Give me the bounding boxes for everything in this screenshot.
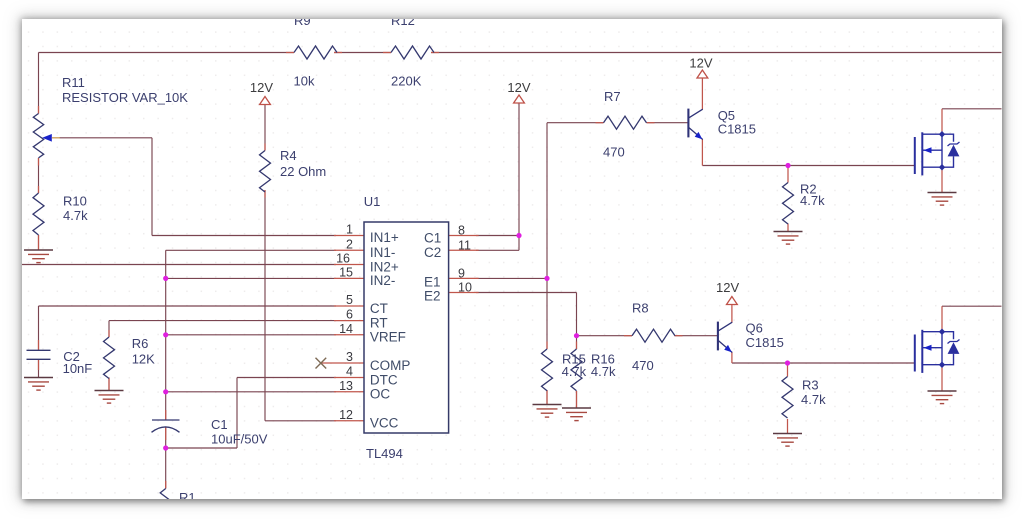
POWER 12V ARROWS (hollow red) xyxy=(260,70,738,305)
RED PIN STUBS xyxy=(39,53,943,489)
pin 8 stub xyxy=(449,235,479,237)
wire DTC horizontal bottom xyxy=(166,447,237,449)
junction E1 / R15 xyxy=(544,276,549,281)
resistor R8 zigzag 470 xyxy=(632,329,675,342)
svg-text:R3: R3 xyxy=(802,378,819,393)
svg-text:R12: R12 xyxy=(391,19,415,28)
wire R10 bottom to ground xyxy=(38,235,40,250)
svg-text:R11: R11 xyxy=(62,75,85,90)
svg-text:IN1-: IN1- xyxy=(370,245,396,260)
wire top feedback segment A xyxy=(39,52,295,54)
svg-text:R10: R10 xyxy=(63,194,87,209)
svg-text:2: 2 xyxy=(346,237,353,251)
svg-text:IN1+: IN1+ xyxy=(370,230,399,245)
pin 3 stub xyxy=(321,362,364,364)
junction Q6 emitter / R3 xyxy=(785,360,790,365)
lower MOSFET body arrow xyxy=(924,345,932,351)
resistor R7 zigzag 470 xyxy=(604,116,647,129)
svg-text:4: 4 xyxy=(346,365,353,379)
wire feedback vertical lower (below C1) xyxy=(165,428,167,449)
svg-text:R8: R8 xyxy=(632,301,649,316)
wire Q6 emitter run to gate xyxy=(732,362,915,364)
wire upper MOSFET drain horizontal xyxy=(942,108,1002,110)
R2 top stub xyxy=(787,166,789,183)
R15 pin stubs xyxy=(546,342,548,350)
ground R15 xyxy=(533,405,562,418)
R6 pin stubs xyxy=(108,330,110,337)
svg-text:12K: 12K xyxy=(132,352,155,367)
svg-text:4.7k: 4.7k xyxy=(800,193,825,208)
svg-text:15: 15 xyxy=(339,265,353,279)
pin 5 stub xyxy=(334,305,364,307)
C2 bottom pin stub xyxy=(38,360,40,371)
svg-text:16: 16 xyxy=(336,252,350,266)
resistor R4 zigzag 22 Ohm xyxy=(260,151,271,192)
wire top feedback segment B (between R9 and R12) xyxy=(334,52,391,54)
pin 16 stub xyxy=(334,264,364,266)
svg-text:RESISTOR VAR_10K: RESISTOR VAR_10K xyxy=(62,90,188,105)
potentiometer R11 wiper pin (tan segment) xyxy=(52,137,60,139)
wire R11 bottom to R10 top xyxy=(38,158,40,193)
svg-text:C1: C1 xyxy=(424,230,441,245)
wire to pin 1 IN1+ xyxy=(152,235,336,237)
svg-text:VREF: VREF xyxy=(370,330,406,345)
wire DTC vertical xyxy=(236,378,238,449)
pin 6 stub xyxy=(334,320,364,322)
junction E2 / R16 xyxy=(574,333,579,338)
pin 9 stub xyxy=(449,277,479,279)
svg-text:IN2-: IN2- xyxy=(370,273,396,288)
pin 1 stub xyxy=(334,235,364,237)
power 12V arrow mid (C1/C2 rail) xyxy=(514,95,525,103)
wire R1 top xyxy=(165,448,167,489)
ground C2 xyxy=(24,378,53,391)
wire R8 right to Q6 base xyxy=(675,335,718,337)
pin 4 stub xyxy=(334,377,364,379)
lower MOSFET zener diode triangle xyxy=(948,342,960,354)
ground R10 xyxy=(24,250,53,263)
wire top feedback segment C xyxy=(431,52,1002,54)
svg-text:3: 3 xyxy=(346,350,353,364)
svg-text:RT: RT xyxy=(370,315,388,330)
pin 12 stub xyxy=(334,420,364,422)
wire feedback vertical upper xyxy=(165,250,167,419)
R16 pin stubs xyxy=(576,342,578,350)
JUNCTION DOTS (magenta) xyxy=(163,163,791,451)
junction VREF xyxy=(163,332,168,337)
wire R7 right to Q5 base xyxy=(647,122,689,124)
C1 bottom pin stub xyxy=(165,428,167,441)
pin 14 stub xyxy=(334,334,364,336)
wire to pin 13 OC xyxy=(166,391,336,393)
wire pin 11 C2 to corner xyxy=(476,249,519,251)
wire wiper vertical xyxy=(151,138,153,236)
svg-text:R7: R7 xyxy=(604,89,621,104)
svg-text:R9: R9 xyxy=(294,19,311,28)
svg-text:11: 11 xyxy=(458,239,471,253)
resistor R16 zigzag 4.7k xyxy=(571,349,582,391)
wire C2 corner up to junction xyxy=(518,236,520,251)
ground R3 xyxy=(773,434,802,447)
R12 pin stubs xyxy=(383,52,391,54)
wire to pin 2 IN1- xyxy=(166,249,336,251)
svg-text:E1: E1 xyxy=(424,274,441,289)
R3 bottom stub xyxy=(787,419,789,434)
svg-text:4.7k: 4.7k xyxy=(63,208,88,223)
wire R16 bottom to ground xyxy=(576,391,578,408)
COMPONENT BODIES (navy) xyxy=(27,46,794,509)
upper MOSFET source to ground stub xyxy=(941,167,943,192)
wire R15 bottom to ground xyxy=(546,390,548,405)
C2 top pin stub xyxy=(38,340,40,350)
wire E2 vertical down xyxy=(576,293,578,336)
svg-text:OC: OC xyxy=(370,387,391,402)
wire wiper horizontal xyxy=(59,137,152,139)
svg-text:E2: E2 xyxy=(424,288,441,303)
transistor Q5 C1815 xyxy=(688,109,702,140)
resistor R2 zigzag 4.7k xyxy=(783,183,794,224)
svg-text:12V: 12V xyxy=(689,56,712,71)
pin 15 stub xyxy=(334,277,364,279)
svg-text:COMP: COMP xyxy=(370,358,411,373)
wire Q5 emitter run to gate xyxy=(702,165,914,167)
svg-text:R6: R6 xyxy=(132,336,149,351)
svg-text:4.7k: 4.7k xyxy=(801,392,826,407)
MOSFET upper (with body zener diode) xyxy=(915,132,960,175)
Q6 emitter arrowhead xyxy=(724,345,732,352)
resistor R1 zigzag (clipped at sheet bottom) xyxy=(160,489,171,510)
wire to pin 14 VREF xyxy=(166,334,336,336)
wire C2 bottom to ground xyxy=(38,360,40,378)
R3 top stub xyxy=(787,363,789,377)
wire E2 junction to R16 xyxy=(576,336,578,349)
svg-text:8: 8 xyxy=(458,224,465,238)
upper MOSFET drain pin stub xyxy=(941,109,943,134)
svg-text:10k: 10k xyxy=(294,73,315,88)
capacitor C1 top plate xyxy=(152,419,180,421)
pin 13 stub xyxy=(334,391,364,393)
svg-text:4.7k: 4.7k xyxy=(591,364,616,379)
Q5 collector pin stub xyxy=(701,78,703,110)
resistor R11 zigzag potentiometer xyxy=(33,114,43,158)
wire to pin 16 IN2+ xyxy=(22,264,337,266)
Q6 emitter pin stub xyxy=(731,352,733,363)
resistor R9 zigzag 10k xyxy=(294,46,337,59)
svg-text:13: 13 xyxy=(339,379,353,393)
capacitor C1 curved bottom plate xyxy=(152,427,180,432)
svg-text:R1: R1 xyxy=(179,490,196,499)
R7 pin stubs xyxy=(596,122,604,124)
svg-text:22 Ohm: 22 Ohm xyxy=(280,164,326,179)
wire E1 vertical up to R7 xyxy=(546,123,548,279)
svg-text:IN2+: IN2+ xyxy=(370,259,399,274)
lower MOSFET drain pin stub xyxy=(941,306,943,332)
transistor Q6 C1815 xyxy=(718,322,732,353)
ground R16 xyxy=(562,408,591,421)
lower MOSFET source junction (navy) xyxy=(939,361,946,368)
resistor R6 zigzag 12K xyxy=(104,337,115,379)
no-ERC marker X at pin 3 xyxy=(316,358,327,369)
wire to pin 6 RT xyxy=(109,320,336,322)
wire R7 left xyxy=(547,122,604,124)
pin 2 stub xyxy=(334,249,364,251)
wire R8 left xyxy=(577,335,633,337)
svg-text:1: 1 xyxy=(346,223,353,237)
upper MOSFET drain junction (navy) xyxy=(939,131,946,138)
wire CT down to C2 xyxy=(38,306,40,350)
power 12V arrow at Q6 xyxy=(727,297,738,305)
svg-text:12: 12 xyxy=(339,408,353,422)
svg-text:9: 9 xyxy=(458,267,465,281)
Q6 collector pin stub xyxy=(731,305,733,323)
ground lower MOSFET xyxy=(928,391,957,404)
svg-text:C1815: C1815 xyxy=(718,121,756,136)
svg-text:14: 14 xyxy=(339,322,353,336)
R8 pin stubs xyxy=(624,335,632,337)
svg-text:10nF: 10nF xyxy=(63,361,93,376)
svg-text:C1: C1 xyxy=(211,417,228,432)
pin 11 stub xyxy=(449,249,479,251)
PIN NAMES inside chip xyxy=(370,230,441,431)
upper MOSFET zener diode triangle xyxy=(948,145,960,157)
svg-text:U1: U1 xyxy=(364,194,381,209)
junction DTC / C1 bottom xyxy=(163,445,168,450)
wire RT down to R6 xyxy=(108,321,110,337)
upper MOSFET source junction (navy) xyxy=(939,164,946,171)
ground R2 xyxy=(774,232,803,245)
svg-text:470: 470 xyxy=(632,358,654,373)
ground R6 xyxy=(95,391,124,404)
wire to pin 4 DTC xyxy=(237,377,336,379)
GROUND SYMBOLS xyxy=(24,193,957,447)
Q5 emitter arrowhead xyxy=(695,132,703,139)
wire to pin 15 IN2- xyxy=(166,277,336,279)
wire pin 8 C1 to junction xyxy=(476,235,519,237)
svg-text:220K: 220K xyxy=(391,73,422,88)
power 12V arrow at Q5 xyxy=(697,70,708,78)
resistor R10 zigzag 4.7k xyxy=(33,193,44,235)
lower MOSFET source to ground stub xyxy=(941,365,943,391)
power 12V arrow at R4 xyxy=(260,97,271,105)
wire R6 bottom to ground xyxy=(108,378,110,391)
IC U1 TL494 body xyxy=(364,222,449,433)
wire left vertical to R11 top xyxy=(38,53,40,114)
upper MOSFET body arrow xyxy=(924,147,932,153)
MOSFET lower (with body zener diode) xyxy=(915,330,960,373)
svg-text:C2: C2 xyxy=(424,245,441,260)
resistor R3 zigzag 4.7k xyxy=(782,377,793,419)
R9 pin stubs xyxy=(286,52,294,54)
wire E1 junction down to R15 xyxy=(546,278,548,349)
junction OC xyxy=(163,389,168,394)
svg-text:10uF/50V: 10uF/50V xyxy=(211,431,268,446)
resistor R15 zigzag 4.7k xyxy=(542,349,553,391)
R2 bottom stub xyxy=(787,224,789,232)
ground upper MOSFET xyxy=(928,193,957,206)
lower MOSFET drain junction (navy) xyxy=(939,328,946,335)
capacitor C2 plates 10nF xyxy=(27,350,51,359)
svg-text:VCC: VCC xyxy=(370,416,399,431)
wire R4 bottom to VCC corner xyxy=(264,190,266,421)
wire to pin 5 CT xyxy=(39,305,337,307)
svg-text:C1815: C1815 xyxy=(746,335,784,350)
svg-text:DTC: DTC xyxy=(370,372,398,387)
junction C1/C2 12V rail xyxy=(516,233,521,238)
junction Q5 emitter / R2 xyxy=(785,163,790,168)
wire pin 9 E1 to junction xyxy=(476,277,547,279)
R10 pin stubs xyxy=(38,186,40,193)
wire pin 10 E2 xyxy=(476,292,577,294)
potentiometer R11 wiper arrow xyxy=(42,134,52,142)
R11 pin stubs xyxy=(38,106,40,114)
svg-text:5: 5 xyxy=(346,293,353,307)
resistor R12 zigzag 220K xyxy=(391,46,434,59)
svg-text:12V: 12V xyxy=(716,280,739,295)
wire 12V mid vertical xyxy=(518,103,520,236)
svg-text:TL494: TL494 xyxy=(366,446,403,461)
svg-text:6: 6 xyxy=(346,308,353,322)
wire to pin 12 VCC xyxy=(265,420,336,422)
svg-text:4.7k: 4.7k xyxy=(562,364,587,379)
pin 10 stub xyxy=(449,292,479,294)
svg-text:CT: CT xyxy=(370,301,388,316)
Q5 emitter pin stub xyxy=(701,139,703,166)
R4 pin stubs xyxy=(264,144,266,151)
wire 12V to R4 top xyxy=(264,105,266,151)
junction pin15 feedback xyxy=(163,276,168,281)
svg-text:12V: 12V xyxy=(507,80,530,95)
svg-text:470: 470 xyxy=(603,145,625,160)
svg-text:R4: R4 xyxy=(280,148,297,163)
PIN NUMBERS xyxy=(336,223,472,422)
C1 top pin stub xyxy=(165,410,167,420)
svg-text:10: 10 xyxy=(458,281,472,295)
svg-text:12V: 12V xyxy=(250,80,273,95)
R1 pin stub xyxy=(165,481,167,489)
svg-text:Q6: Q6 xyxy=(746,320,763,335)
wire lower MOSFET drain horizontal xyxy=(942,305,1002,307)
